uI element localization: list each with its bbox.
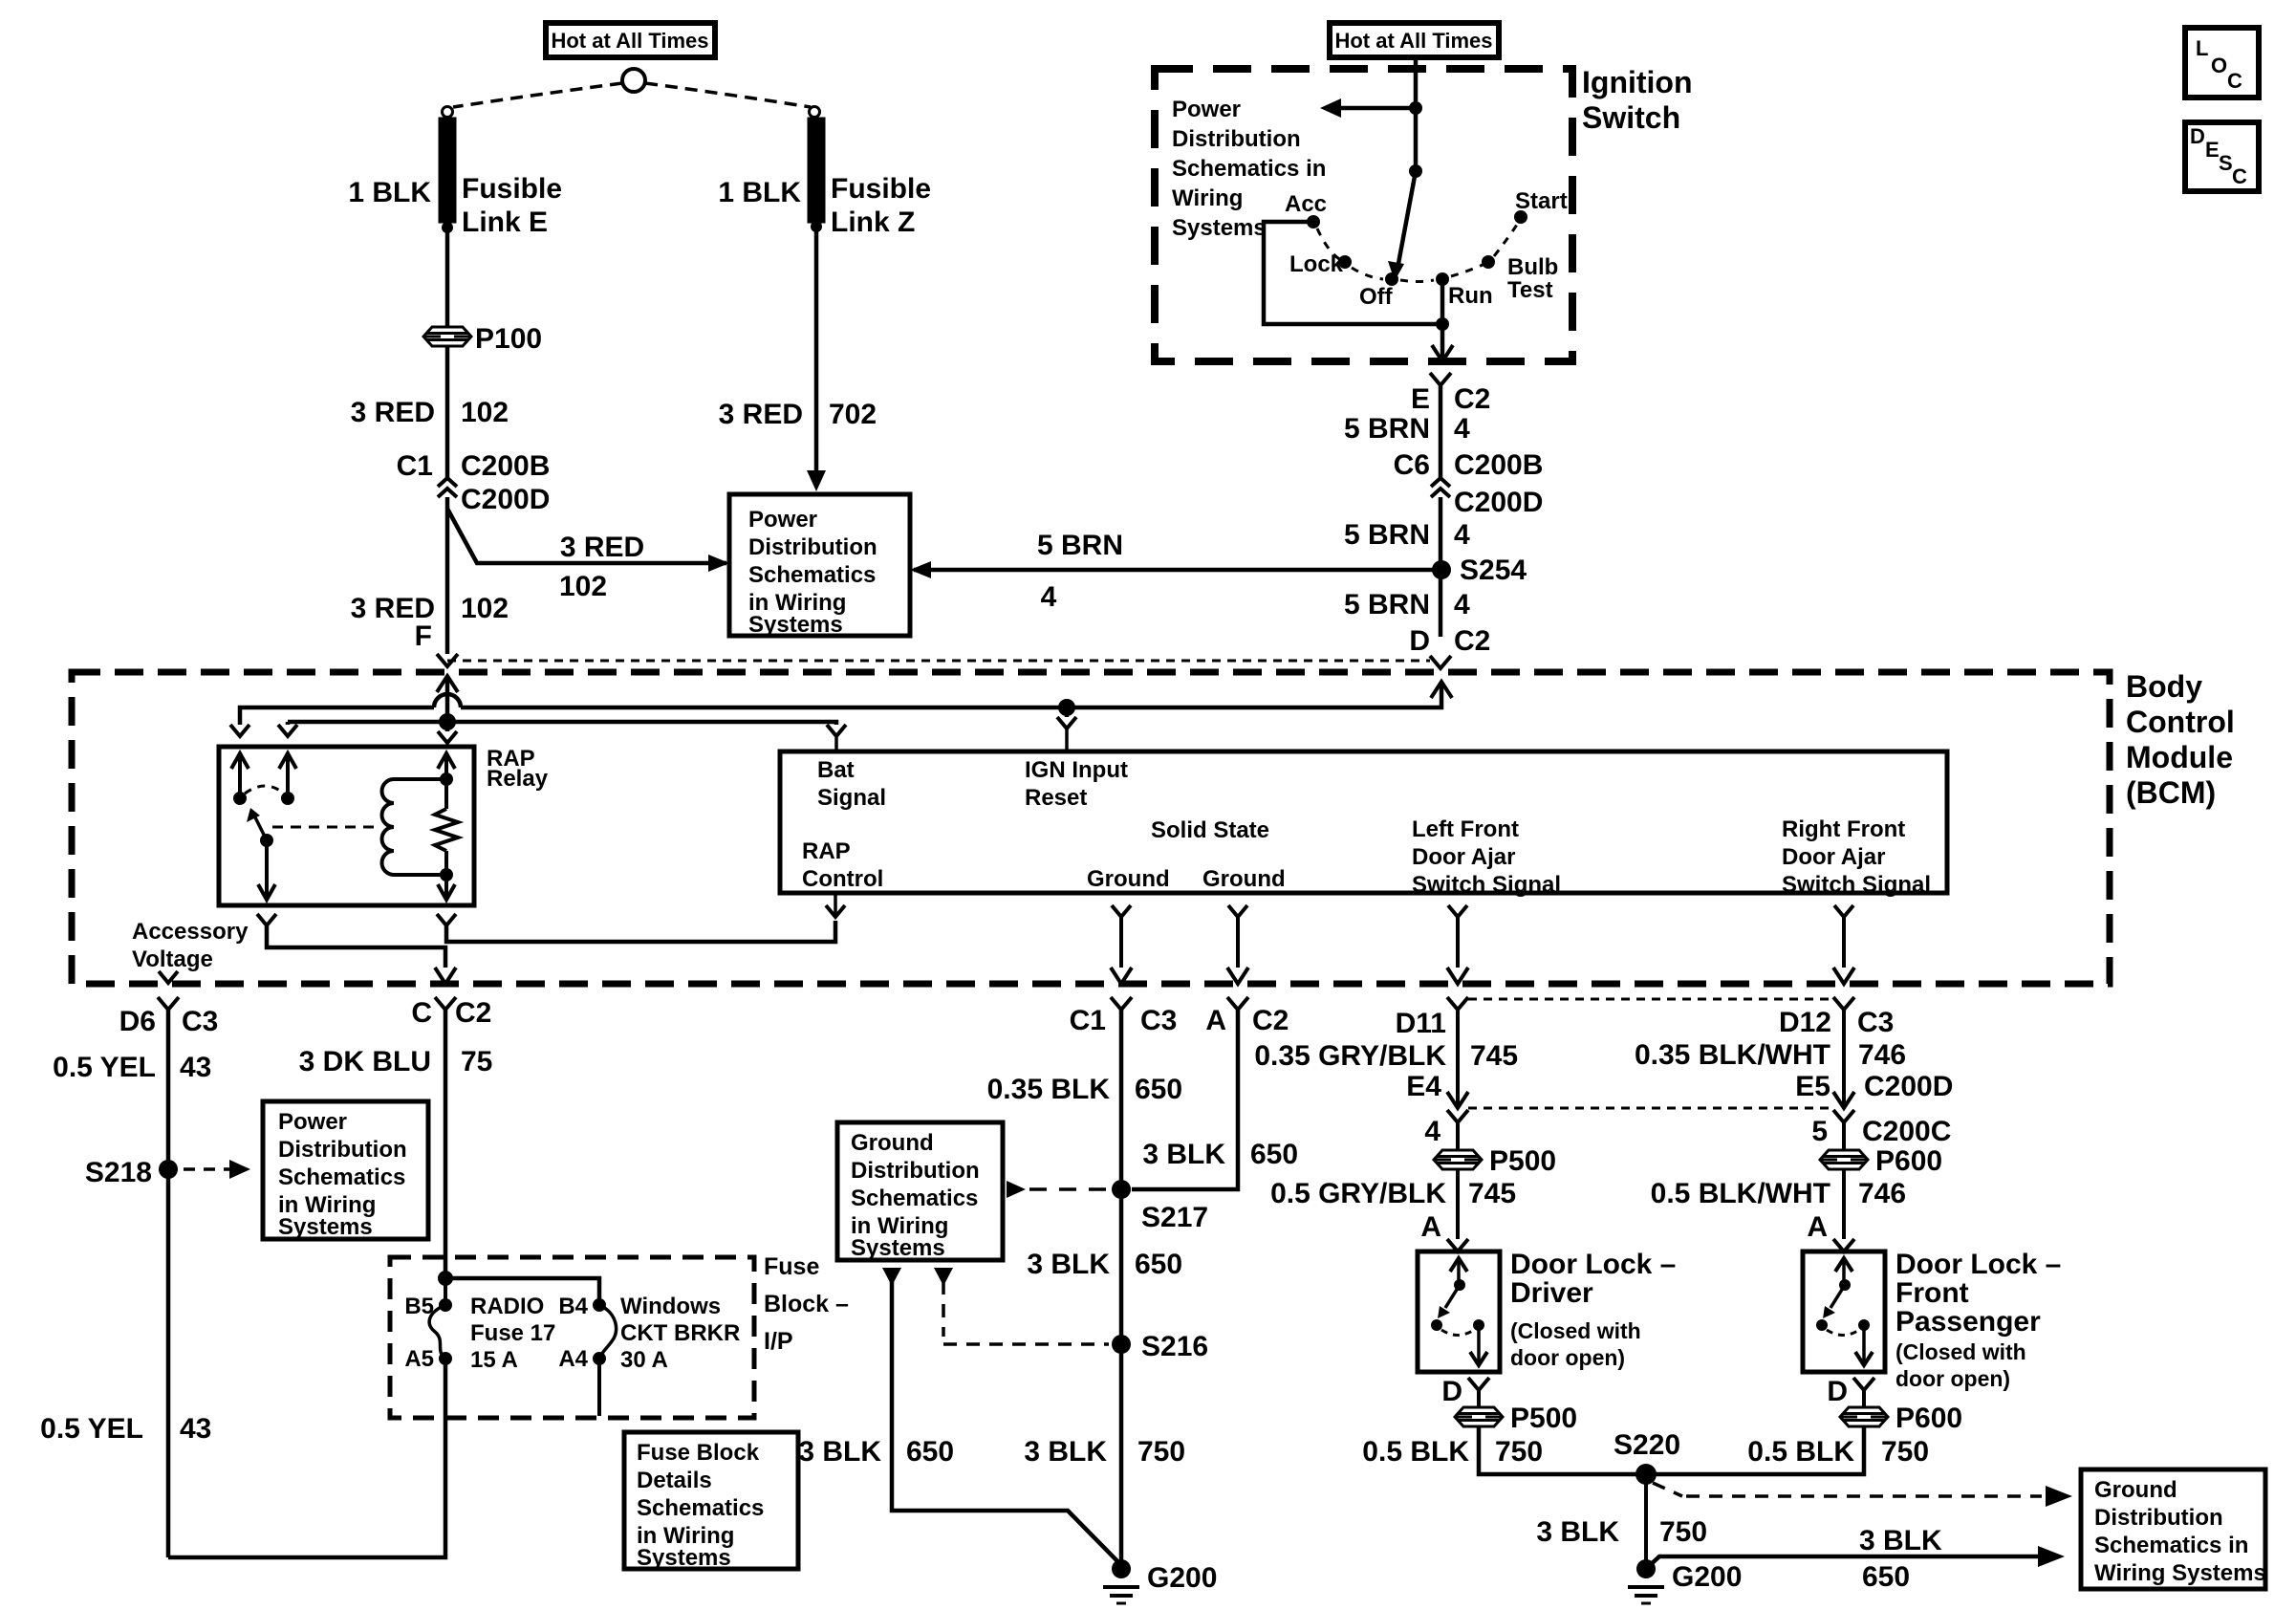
svg-text:RADIO: RADIO: [470, 1294, 544, 1319]
svg-text:CKT BRKR: CKT BRKR: [620, 1320, 740, 1346]
svg-text:Control: Control: [802, 866, 883, 892]
svg-text:0.5 YEL: 0.5 YEL: [40, 1413, 143, 1445]
svg-text:Signal: Signal: [817, 785, 886, 811]
connector chevron: right door ajar pin: [1834, 905, 1853, 917]
arrow: relay output down: [258, 884, 275, 900]
legend box: LOC: [2185, 28, 2259, 98]
svg-text:5 BRN: 5 BRN: [1344, 519, 1430, 551]
svg-text:3 RED: 3 RED: [719, 399, 803, 430]
svg-text:0.5 GRY/BLK: 0.5 GRY/BLK: [1270, 1178, 1446, 1209]
connector chevron: relay coil pin: [438, 731, 457, 743]
svg-text:Fuse Block: Fuse Block: [637, 1440, 760, 1466]
svg-text:Schematics: Schematics: [748, 562, 876, 588]
node: bus A junction to IGN Input Reset: [1058, 699, 1075, 716]
svg-text:Wiring Systems: Wiring Systems: [2094, 1560, 2266, 1586]
svg-text:Door Ajar: Door Ajar: [1412, 844, 1515, 870]
svg-text:Fusible: Fusible: [831, 173, 931, 205]
svg-text:S216: S216: [1141, 1331, 1208, 1362]
fusible link Z body: [808, 118, 825, 223]
svg-text:4: 4: [1424, 1116, 1440, 1147]
svg-text:C: C: [2227, 69, 2242, 93]
svg-text:S218: S218: [85, 1157, 152, 1188]
svg-text:D12: D12: [1779, 1007, 1831, 1038]
arrowhead into power distribution box top: [807, 470, 826, 491]
reference box: Ground Distribution Schematics in Wiring Systems (right): [2081, 1469, 2265, 1589]
svg-text:Fusible: Fusible: [462, 173, 562, 205]
node: coil/resistor top: [440, 772, 453, 786]
svg-text:750: 750: [1137, 1436, 1185, 1468]
svg-text:650: 650: [1250, 1139, 1298, 1170]
relay pin 2 arrow up: [279, 753, 296, 769]
arrow: driver switch output down: [1470, 1352, 1487, 1365]
svg-text:102: 102: [559, 571, 607, 602]
svg-text:A: A: [1807, 1211, 1828, 1243]
connector chevron below relay (coil out): [437, 914, 456, 925]
node: fuse terminal A5: [439, 1352, 452, 1365]
svg-text:3 BLK: 3 BLK: [1027, 1249, 1110, 1280]
ground G200 (right): [1636, 1559, 1656, 1578]
svg-text:S254: S254: [1460, 555, 1527, 586]
svg-text:Relay: Relay: [487, 766, 549, 792]
ignition contact: Acc: [1307, 215, 1320, 228]
arrowhead: ground wire into ground box (solid): [882, 1268, 901, 1286]
reference box: Fuse Block Details Schematics in Wiring Systems: [624, 1432, 798, 1569]
connector P600 grommet (upper): [1820, 1150, 1868, 1169]
node: relay fixed contact 2: [281, 792, 294, 805]
wire: relay common down: [265, 840, 269, 900]
svg-text:D: D: [1441, 1376, 1462, 1407]
svg-text:Reset: Reset: [1025, 785, 1087, 811]
svg-text:Link E: Link E: [462, 207, 548, 238]
svg-text:746: 746: [1858, 1039, 1906, 1071]
svg-text:Bat: Bat: [817, 757, 855, 783]
connector E chevron below ignition box: [1430, 373, 1451, 385]
wire: F wire continues to relay coil pin: [445, 722, 450, 731]
reference box: Power Distribution Schematics in Wiring Systems (left): [263, 1101, 428, 1239]
arrow: left door wire at C200D: [1447, 1092, 1468, 1108]
wire: link Z down to power distribution box: [814, 227, 819, 475]
svg-text:Door Ajar: Door Ajar: [1782, 844, 1885, 870]
node: fusible link Z lower terminal: [811, 221, 822, 232]
svg-text:C: C: [2232, 164, 2247, 188]
svg-text:E: E: [1411, 383, 1430, 415]
arrow: run wire exits ignition box: [1432, 345, 1453, 361]
svg-text:C2: C2: [455, 997, 491, 1029]
ignition contact: Bulb Test: [1482, 255, 1495, 269]
svg-text:Schematics in: Schematics in: [1172, 156, 1326, 182]
ignition rotor arm with arrowhead: [1397, 171, 1416, 269]
ignition contact: Lock: [1338, 255, 1352, 269]
legend box: DESC: [2185, 122, 2259, 191]
fusible link E terminal circle: [443, 107, 453, 118]
wire: Acc contact to accessory bus: [1264, 222, 1442, 324]
svg-text:0.5 YEL: 0.5 YEL: [53, 1052, 156, 1083]
svg-text:1 BLK: 1 BLK: [348, 177, 431, 208]
svg-text:(Closed with: (Closed with: [1510, 1318, 1641, 1343]
svg-text:Systems: Systems: [851, 1235, 945, 1261]
svg-text:Schematics in: Schematics in: [2094, 1533, 2248, 1558]
svg-text:Start: Start: [1515, 188, 1568, 214]
ignition contact: Off: [1385, 272, 1398, 286]
svg-text:Schematics: Schematics: [278, 1164, 405, 1190]
svg-text:650: 650: [1135, 1249, 1182, 1280]
svg-text:Off: Off: [1359, 284, 1394, 310]
svg-text:702: 702: [829, 399, 877, 430]
connector chevron: door lock driver pin D: [1468, 1378, 1489, 1390]
wire: left door down to P500: [1456, 1121, 1460, 1150]
svg-text:3 BLK: 3 BLK: [1142, 1139, 1225, 1170]
svg-text:D: D: [1827, 1376, 1848, 1407]
svg-text:Right Front: Right Front: [1782, 816, 1905, 842]
wire: ignition output down to C200B: [1439, 382, 1443, 478]
connector chevron: relay pin 2: [278, 725, 297, 736]
svg-text:3 BLK: 3 BLK: [798, 1436, 881, 1468]
wire: coil bottom link: [394, 873, 446, 877]
svg-text:Schematics: Schematics: [637, 1495, 764, 1521]
svg-text:C2: C2: [1454, 383, 1490, 415]
label box: Hot at All Times (right): [1330, 23, 1499, 57]
wire: ground 2 to BCM border: [1236, 917, 1240, 968]
wire: breaker output to box edge: [597, 1359, 601, 1416]
svg-text:3 BLK: 3 BLK: [1536, 1516, 1619, 1548]
node: rotor pivot: [1409, 164, 1422, 178]
svg-text:4: 4: [1041, 581, 1057, 613]
wire: Run contact down: [1440, 279, 1445, 359]
svg-text:Bulb: Bulb: [1507, 254, 1558, 280]
svg-text:Accessory: Accessory: [132, 919, 249, 945]
component box: Body Control Module (dashed): [72, 672, 2110, 984]
wire: relay switch output to accessory C pin: [267, 925, 445, 968]
node: passenger switch contact (left): [1816, 1319, 1828, 1331]
svg-text:Front: Front: [1895, 1277, 1969, 1309]
svg-text:Module: Module: [2126, 740, 2233, 774]
wire: C200D down to BCM connector F: [445, 497, 450, 654]
svg-text:Details: Details: [637, 1468, 712, 1493]
wire: dashed feed to Fusible Link Z: [645, 83, 811, 107]
arrow: coil return exits relay: [438, 884, 455, 900]
connector chevron: C200C right door: [1833, 1110, 1854, 1122]
wire: ground 1 to BCM border: [1119, 917, 1123, 968]
svg-text:3 BLK: 3 BLK: [1024, 1436, 1107, 1468]
dotted connector face line (C3 row): [1468, 998, 1833, 1001]
component box: BCM solid state module: [780, 751, 1947, 893]
node: splice S254: [1432, 560, 1451, 579]
svg-text:S217: S217: [1141, 1202, 1208, 1233]
svg-text:3 RED: 3 RED: [560, 532, 644, 563]
svg-text:D6: D6: [119, 1006, 156, 1037]
svg-text:Body: Body: [2126, 669, 2202, 704]
svg-text:4: 4: [1454, 589, 1470, 620]
wire: S220 down to G200 right: [1644, 1474, 1648, 1569]
svg-text:O: O: [2211, 54, 2227, 77]
circuit breaker element (Windows CKT BRKR): [599, 1305, 617, 1359]
svg-text:75: 75: [461, 1046, 492, 1077]
svg-text:5 BRN: 5 BRN: [1344, 413, 1430, 445]
wire: 0.5 YEL 43 down left side: [166, 1009, 171, 1557]
svg-text:Lock: Lock: [1289, 251, 1344, 277]
ground G200 (left): [1112, 1559, 1131, 1578]
wire: hot feed into ignition switch box: [1414, 57, 1419, 109]
wire: P600 to door lock passenger: [1842, 1169, 1846, 1239]
svg-text:4: 4: [1454, 519, 1470, 551]
svg-text:P600: P600: [1875, 1145, 1942, 1177]
node: relay common contact: [260, 834, 273, 847]
svg-text:D: D: [2190, 124, 2205, 148]
svg-text:43: 43: [180, 1052, 211, 1083]
connector chevron: Bat Signal pin: [827, 725, 846, 736]
svg-text:Distribution: Distribution: [278, 1137, 407, 1163]
svg-text:Driver: Driver: [1510, 1277, 1593, 1309]
wire: P500 to door lock driver: [1456, 1169, 1460, 1239]
svg-text:B4: B4: [558, 1294, 588, 1319]
svg-text:door open): door open): [1895, 1366, 2010, 1391]
wire: bus B from relay pin 2 to Bat Signal: [288, 722, 836, 725]
svg-text:D11: D11: [1396, 1008, 1446, 1039]
relay coil winding: [382, 779, 395, 875]
arrow: right door signal exits BCM: [1833, 968, 1854, 984]
dashed mechanical link to coil: [272, 826, 379, 829]
connector chevron: left door ajar pin: [1448, 905, 1467, 917]
connector chevron: C1/C3 ground 1 below BCM: [1111, 997, 1132, 1010]
relay resistor zigzag: [435, 809, 458, 851]
svg-text:1 BLK: 1 BLK: [718, 177, 801, 208]
wire: left door signal down to C200D: [1456, 1009, 1460, 1108]
svg-text:E4: E4: [1406, 1071, 1441, 1102]
wire: right door down to P600: [1842, 1121, 1846, 1150]
node: breaker terminal B4: [593, 1298, 606, 1312]
relay pin 3 arrow up (coil feed): [438, 753, 455, 769]
svg-text:E5: E5: [1795, 1071, 1830, 1102]
dashed reference wire S220 to ground distribution box: [1653, 1483, 1682, 1496]
svg-text:3 DK BLU: 3 DK BLU: [299, 1046, 431, 1077]
arrowhead into power distribution box right: [910, 561, 931, 578]
connector chevron: IGN Input Reset pin: [1057, 717, 1076, 729]
svg-text:Solid State: Solid State: [1151, 817, 1269, 843]
wire: left door signal to BCM border: [1456, 917, 1460, 968]
svg-text:Left Front: Left Front: [1412, 816, 1519, 842]
svg-text:3 RED: 3 RED: [351, 397, 435, 428]
svg-text:Power: Power: [748, 507, 817, 533]
svg-text:C200C: C200C: [1862, 1116, 1951, 1147]
svg-text:D: D: [1409, 625, 1430, 657]
svg-text:30 A: 30 A: [620, 1347, 668, 1373]
svg-text:(Closed with: (Closed with: [1895, 1339, 2026, 1364]
door lock passenger: pin A arrow: [1835, 1258, 1852, 1272]
svg-text:Hot at All Times: Hot at All Times: [1334, 29, 1492, 53]
svg-text:0.5 BLK: 0.5 BLK: [1362, 1436, 1469, 1468]
svg-text:C200D: C200D: [461, 484, 550, 515]
connector chevron: door lock passenger pin A: [1833, 1239, 1854, 1251]
svg-text:0.5 BLK/WHT: 0.5 BLK/WHT: [1651, 1178, 1830, 1209]
wire: fuse A5 output down and around to 0.5 YEL wire: [168, 1359, 445, 1557]
svg-text:Voltage: Voltage: [132, 946, 213, 972]
arrowhead into power distribution box: [708, 555, 729, 572]
wire: branch 3 RED 102 to power distribution box: [447, 509, 726, 563]
connector P500 grommet (upper): [1434, 1150, 1482, 1169]
label box: Hot at All Times (left): [546, 23, 715, 57]
svg-text:746: 746: [1858, 1178, 1906, 1209]
dashed arc passenger switch: [1827, 1330, 1859, 1336]
svg-text:RAP: RAP: [802, 838, 851, 864]
node: fuse feed junction: [438, 1271, 453, 1286]
svg-text:Fuse: Fuse: [764, 1253, 819, 1280]
wire: bus A continues to RAP relay pin 1: [240, 707, 434, 725]
svg-text:Systems: Systems: [278, 1214, 373, 1240]
svg-text:Systems: Systems: [1172, 215, 1267, 241]
wire: ignition input down and across (bus A): [461, 682, 1441, 707]
wire: P100 down to C200 connector: [445, 346, 450, 478]
svg-text:C2: C2: [1252, 1005, 1289, 1036]
dashed reference arrow to power distribution box: [184, 1167, 229, 1171]
connector chevron: door lock passenger pin D: [1853, 1378, 1874, 1390]
svg-text:Power: Power: [1172, 97, 1241, 122]
connector chevron: door lock driver pin A: [1447, 1239, 1468, 1251]
svg-text:Switch Signal: Switch Signal: [1782, 872, 1931, 898]
svg-text:C3: C3: [1857, 1007, 1894, 1038]
svg-text:C6: C6: [1394, 449, 1430, 481]
wire: ground 1 down to G200: [1119, 1009, 1124, 1569]
svg-text:Switch: Switch: [1582, 100, 1680, 135]
node: driver switch top contact: [1454, 1279, 1465, 1291]
svg-text:S: S: [2219, 151, 2233, 175]
svg-text:745: 745: [1468, 1178, 1516, 1209]
svg-text:0.35 BLK: 0.35 BLK: [987, 1074, 1111, 1105]
svg-text:745: 745: [1470, 1040, 1518, 1072]
wire: C200D down to S254: [1439, 497, 1443, 637]
arrow: passenger switch output down: [1855, 1352, 1873, 1365]
connector P500 grommet (lower): [1455, 1407, 1503, 1426]
connector chevron: C/C2 below BCM: [435, 997, 456, 1010]
connector D chevron at BCM top: [1430, 656, 1451, 668]
svg-text:S220: S220: [1614, 1429, 1680, 1461]
svg-text:Wiring: Wiring: [1172, 185, 1243, 211]
connector F chevron at BCM: [437, 654, 458, 666]
svg-text:Distribution: Distribution: [1172, 126, 1301, 152]
arrow: ground 2 exits BCM: [1227, 968, 1248, 984]
svg-text:C2: C2: [1454, 625, 1490, 657]
svg-text:C: C: [411, 997, 432, 1029]
svg-text:C200D: C200D: [1864, 1071, 1953, 1102]
svg-text:650: 650: [1862, 1561, 1910, 1593]
wire: pin D to P500 lower: [1477, 1389, 1481, 1407]
svg-text:650: 650: [906, 1436, 954, 1468]
svg-text:Block –: Block –: [764, 1291, 849, 1317]
wire: pin D to P600 lower: [1862, 1389, 1866, 1407]
connector chevron: D12/C3 below BCM: [1833, 997, 1854, 1010]
node: relay fixed contact 1: [233, 792, 247, 805]
wire: 3 BLK 650 from ground box to G200: [892, 1281, 1121, 1565]
svg-text:43: 43: [180, 1413, 211, 1445]
svg-text:Ground: Ground: [1087, 866, 1170, 892]
wire: dashed feed to Fusible Link E: [453, 83, 622, 107]
svg-text:0.35 GRY/BLK: 0.35 GRY/BLK: [1254, 1040, 1446, 1072]
connector chevron: A/C2 ground 2 below BCM: [1227, 997, 1248, 1010]
fusible link Z terminal circle: [810, 107, 820, 118]
svg-text:(BCM): (BCM): [2126, 775, 2216, 810]
arrow: accessory C wire exits BCM: [435, 968, 456, 984]
svg-text:Power: Power: [278, 1109, 347, 1135]
wire: 5 BRN 4 from S254 to power distribution box: [914, 568, 1441, 573]
svg-text:IGN Input: IGN Input: [1025, 757, 1128, 783]
svg-text:Ground: Ground: [851, 1130, 934, 1156]
node: passenger switch contact (right): [1858, 1319, 1870, 1331]
svg-text:A: A: [1205, 1005, 1226, 1036]
connector chevron: relay pin 1: [230, 725, 249, 736]
svg-text:A5: A5: [404, 1346, 434, 1372]
node: ignition feed junction: [1409, 101, 1422, 115]
svg-text:C3: C3: [182, 1006, 218, 1037]
component box: Ignition Switch (dashed): [1155, 69, 1572, 361]
node: battery feed circle: [622, 69, 645, 92]
svg-text:Schematics: Schematics: [851, 1186, 978, 1211]
connector chevron: Ground pin 1: [1112, 905, 1131, 917]
node: splice S216: [1112, 1335, 1131, 1354]
ignition contact: Run: [1436, 272, 1449, 286]
svg-text:C200D: C200D: [1454, 487, 1543, 518]
svg-text:Windows: Windows: [620, 1294, 721, 1319]
component box: Fuse Block I/P (dashed): [390, 1257, 754, 1418]
svg-text:4: 4: [1454, 413, 1470, 445]
fuse element (RADIO Fuse 17): [429, 1305, 445, 1359]
arrowhead: dashed ground reference into ground box: [934, 1268, 953, 1286]
connector chevron: D6/C3 below BCM: [158, 997, 179, 1010]
svg-text:Test: Test: [1507, 277, 1553, 303]
svg-text:650: 650: [1135, 1074, 1182, 1105]
svg-text:Switch Signal: Switch Signal: [1412, 872, 1561, 898]
svg-text:P500: P500: [1510, 1403, 1577, 1434]
dashed rotary arc through contacts: [1317, 228, 1341, 260]
svg-text:5 BRN: 5 BRN: [1037, 530, 1123, 561]
svg-text:P500: P500: [1489, 1145, 1556, 1177]
wire: right door signal to BCM border: [1842, 917, 1846, 968]
wire: stub to IGN Input Reset pin: [1065, 707, 1070, 717]
wire: 3 DK BLU 75 down to fuse block: [444, 1009, 448, 1278]
svg-text:E: E: [2205, 138, 2220, 162]
door lock driver: pin A arrow: [1450, 1258, 1467, 1272]
svg-text:Link Z: Link Z: [831, 207, 915, 238]
svg-text:0.5 BLK: 0.5 BLK: [1747, 1436, 1854, 1468]
dashed arc driver switch: [1441, 1330, 1474, 1336]
svg-text:Hot at All Times: Hot at All Times: [551, 29, 708, 53]
wire: passenger switch output: [1862, 1325, 1866, 1365]
reference box: Ground Distribution Schematics in Wiring Systems (middle): [837, 1122, 1003, 1260]
dotted connector face line (C200D row): [1468, 1107, 1833, 1110]
node: driver switch contact (right): [1473, 1319, 1484, 1331]
arrow: ground 1 exits BCM: [1111, 968, 1132, 984]
dotted connector face line C2: [447, 660, 1430, 663]
svg-text:A: A: [1420, 1211, 1441, 1243]
connector C200B/C200D pass-through (ignition): [1431, 478, 1450, 487]
wire: link E down to P100: [445, 228, 450, 327]
svg-text:door open): door open): [1510, 1345, 1625, 1370]
wire: feed over to circuit breaker B4: [445, 1278, 599, 1305]
relay movable blade with arrowhead: [254, 816, 267, 840]
svg-text:Acc: Acc: [1285, 191, 1327, 217]
svg-text:Control: Control: [2126, 705, 2235, 739]
svg-text:Distribution: Distribution: [2094, 1505, 2223, 1531]
wire: 3 BLK 650 from G200 to ground distribution box: [1646, 1556, 2038, 1569]
arrow: F wire enters BCM: [437, 676, 458, 692]
node: driver switch contact (left): [1431, 1319, 1442, 1331]
svg-text:I/P: I/P: [764, 1328, 793, 1355]
node: fusible link E lower terminal: [442, 222, 453, 233]
dashed arc between relay contacts: [245, 786, 284, 794]
svg-text:Ground: Ground: [2094, 1477, 2177, 1503]
arrow: left door signal exits BCM: [1447, 968, 1468, 984]
svg-text:15 A: 15 A: [470, 1347, 518, 1373]
ignition contact: Start: [1514, 210, 1527, 224]
svg-text:P600: P600: [1895, 1403, 1962, 1434]
